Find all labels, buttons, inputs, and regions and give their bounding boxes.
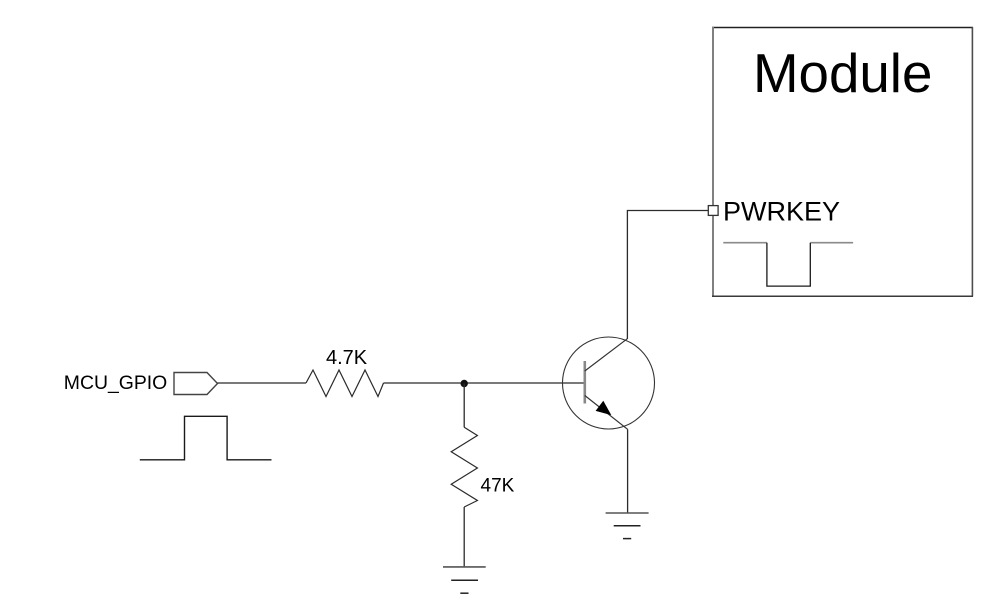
wire junction to R2 bbox=[463, 384, 465, 428]
svg-text:MCU_GPIO: MCU_GPIO bbox=[64, 372, 167, 394]
wire port to R1 bbox=[218, 382, 307, 384]
svg-text:PWRKEY: PWRKEY bbox=[723, 197, 840, 227]
ground (emitter) bbox=[606, 513, 649, 539]
wire emitter to ground bbox=[627, 429, 629, 513]
resistor R1 bbox=[306, 370, 384, 397]
wire R2 to ground bbox=[463, 507, 465, 567]
port MCU_GPIO bbox=[174, 373, 218, 395]
resistor R2 bbox=[451, 427, 477, 507]
pin PWRKEY bbox=[708, 206, 718, 216]
MCU_GPIO waveform bbox=[140, 416, 272, 460]
wire R1 to base bbox=[384, 382, 584, 384]
node base junction bbox=[461, 380, 468, 387]
wire collector to PWRKEY pin bbox=[627, 211, 708, 340]
ground (R2) bbox=[443, 567, 486, 593]
module U1 box bbox=[712, 27, 973, 297]
svg-text:Module: Module bbox=[753, 42, 932, 104]
PWRKEY waveform bbox=[723, 243, 853, 286]
svg-text:47K: 47K bbox=[481, 476, 515, 497]
transistor Q1 bbox=[563, 337, 655, 429]
svg-text:4.7K: 4.7K bbox=[326, 347, 368, 369]
